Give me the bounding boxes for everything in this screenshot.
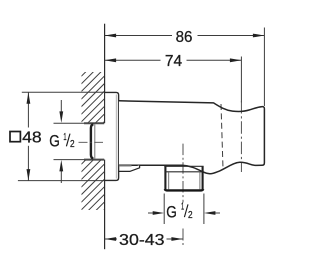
inlet socket mouth bar — [91, 124, 94, 158]
dimension 48 arrows — [27, 92, 31, 104]
square symbol of 48 — [10, 132, 20, 142]
inlet socket bottom line — [84, 159, 106, 161]
flange inner highlight — [115, 95, 117, 179]
svg-text:74: 74 — [165, 53, 182, 70]
hidden cone dashed line in holder — [221, 104, 223, 169]
nipple thick bottom — [165, 189, 203, 190]
dimension 86 arrows — [105, 34, 117, 38]
G1/2 left dimension extension lines — [54, 122, 85, 124]
dimension 74 line — [105, 59, 242, 61]
dimension 48 bottom extension line — [18, 180, 105, 182]
bottom G 1/2 label — [166, 201, 193, 222]
bottom G1/2 extension lines — [163, 194, 165, 225]
wall face line (upper segment) — [104, 24, 106, 124]
nipple inner edge lines — [168, 172, 170, 189]
outlet nipple white fill — [165, 166, 202, 190]
svg-text:G: G — [49, 133, 60, 151]
svg-text:1: 1 — [63, 131, 66, 143]
nipple shoulder line — [165, 171, 202, 173]
30-43 arrows — [105, 237, 117, 241]
dimension 30-43 line — [105, 238, 183, 240]
bottom G1/2 arrows — [148, 212, 153, 214]
inlet socket top line — [84, 122, 106, 124]
svg-text:86: 86 — [176, 29, 193, 46]
dimension 48 top extension line — [22, 91, 105, 93]
inlet socket inner rim — [94, 124, 96, 159]
G 1/2 left label — [49, 131, 74, 151]
svg-text:G: G — [166, 203, 177, 221]
wall face line (lower segment) — [104, 160, 106, 250]
svg-text:30-43: 30-43 — [119, 232, 165, 249]
svg-text:1: 1 — [181, 201, 184, 213]
gray double edge near flange underside — [119, 165, 132, 167]
nipple top line — [164, 165, 203, 167]
bracket under body near flange — [119, 165, 140, 171]
wall hatching upper patch — [0, 0, 226, 280]
socket center line — [79, 141, 104, 143]
body white fill — [119, 101, 265, 174]
flange (escutcheon) — [104, 92, 118, 180]
svg-text:2: 2 — [188, 209, 193, 221]
dimension 86 line — [105, 35, 265, 37]
outlet center line lower part — [182, 229, 184, 247]
G1/2 left bottom arrow — [60, 171, 62, 183]
svg-text:48: 48 — [22, 129, 42, 146]
nipple left edge — [164, 166, 166, 190]
svg-text:2: 2 — [70, 138, 75, 150]
extension line for 74 (upper solid part) — [240, 57, 242, 103]
extension line right for 86 — [263, 28, 265, 107]
dimension 74 arrows — [105, 58, 117, 62]
holder center line (dash-dot) — [240, 101, 242, 172]
outlet center line upper part (dash-dot) — [182, 144, 184, 203]
G1/2 left top arrow — [60, 100, 62, 112]
nipple right edge — [202, 166, 204, 190]
dimension 48 vertical line — [27, 92, 29, 180]
wall line across flange (thin) — [104, 92, 106, 123]
body outline stroke — [119, 101, 265, 174]
